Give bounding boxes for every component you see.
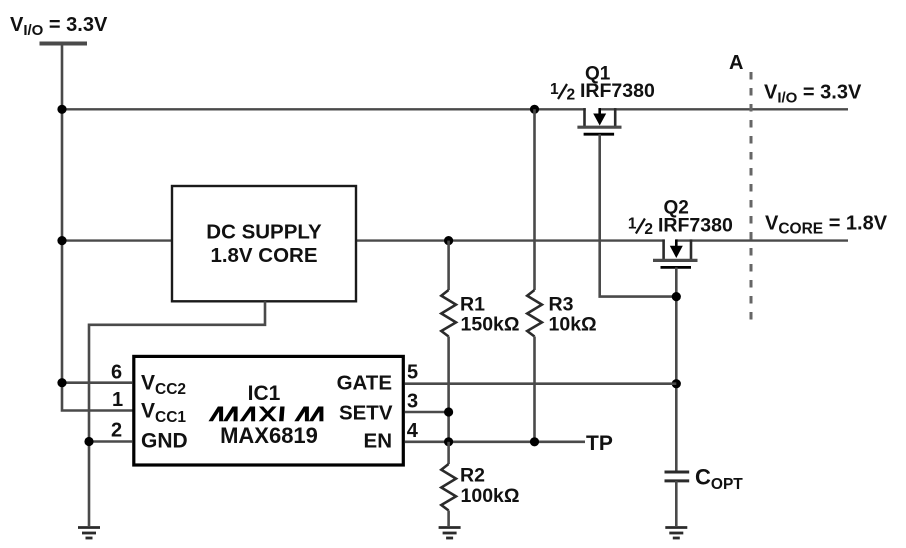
- node junction EN / R1-R2: [444, 437, 453, 446]
- svg-text:R3: R3: [549, 294, 574, 316]
- svg-text:SETV: SETV: [339, 402, 393, 425]
- svg-text:R1: R1: [460, 294, 485, 316]
- wire 1.8V core rail left of DC supply box: [62, 239, 172, 241]
- svg-text:MAX6819: MAX6819: [220, 423, 318, 448]
- node junction gate wires: [672, 292, 681, 301]
- wire SETV pin 3 line: [405, 411, 449, 414]
- node junction EN / R3: [530, 437, 539, 446]
- svg-text:IRF7380: IRF7380: [580, 80, 655, 102]
- svg-text:3: 3: [407, 391, 418, 413]
- wire GATE pin 5 line: [405, 382, 676, 385]
- label 1/2 IRF7380 for Q1: [550, 80, 655, 104]
- Q2 drain stub: [690, 239, 693, 259]
- node junction top rail / R3: [530, 105, 539, 114]
- Q1 channel bar: [577, 126, 621, 129]
- svg-text:100kΩ: 100kΩ: [461, 485, 520, 507]
- svg-text:2: 2: [644, 221, 653, 238]
- resistor R2: [441, 442, 456, 526]
- transistor Q2 (1/2 IRF7380): [653, 239, 698, 267]
- label 1/2 IRF7380 for Q2: [628, 215, 733, 239]
- svg-text:2: 2: [567, 87, 576, 104]
- node junction GND: [84, 437, 93, 446]
- wire vertical from VI/O bar down to VCC1 corner: [62, 44, 133, 411]
- cutline A dashed: [750, 72, 753, 327]
- svg-text:1: 1: [112, 389, 123, 411]
- svg-text:5: 5: [407, 362, 418, 384]
- node junction top rail / main vertical: [57, 105, 66, 114]
- DC supply box: [172, 186, 356, 301]
- node junction 1.8V rail / R1: [444, 236, 453, 245]
- Q1 drain stub: [614, 108, 617, 126]
- svg-text:A: A: [729, 52, 743, 74]
- svg-text:EN: EN: [364, 430, 392, 453]
- wire Q1 gate down and over to gate node: [600, 134, 677, 296]
- capacitor COPT: [665, 472, 690, 481]
- wire Q2 gate down to COPT: [675, 267, 678, 470]
- pin 6 wire VCC2: [62, 381, 132, 384]
- node junction VCC2: [57, 378, 66, 387]
- Q1 gate bar: [584, 133, 615, 136]
- Q2 substrate arrow: [675, 239, 678, 247]
- svg-text:1: 1: [550, 81, 559, 98]
- Q1 substrate arrow: [598, 108, 601, 115]
- Q2 gate bar: [661, 266, 692, 269]
- pin 2 wire GND: [89, 440, 132, 443]
- svg-text:6: 6: [111, 362, 122, 384]
- node junction gate line: [672, 379, 681, 388]
- wire top 3.3V rail right segment: [599, 108, 849, 110]
- svg-text:GND: GND: [141, 430, 188, 453]
- svg-text:150kΩ: 150kΩ: [461, 314, 520, 336]
- Q2 source stub: [662, 239, 665, 259]
- svg-text:4: 4: [407, 420, 419, 442]
- wire 1.8V core rail right of Q2: [676, 239, 848, 241]
- svg-text:1: 1: [628, 216, 637, 233]
- svg-text:2: 2: [111, 420, 122, 442]
- svg-text:IRF7380: IRF7380: [658, 215, 733, 237]
- wire 1.8V core rail from box to Q2: [356, 239, 665, 241]
- svg-text:TP: TP: [586, 432, 613, 455]
- svg-text:DC SUPPLY: DC SUPPLY: [206, 221, 322, 244]
- svg-text:IC1: IC1: [248, 382, 281, 405]
- power terminal bar VI/O: [40, 42, 88, 46]
- ground bottom-left: [78, 528, 100, 539]
- wire DC supply ground return: [89, 301, 265, 526]
- svg-text:10kΩ: 10kΩ: [549, 314, 597, 336]
- transistor Q1 (1/2 IRF7380): [577, 108, 621, 134]
- Q2 channel bar: [653, 259, 698, 262]
- node junction SETV / divider: [444, 407, 453, 416]
- ground below R2: [439, 528, 461, 539]
- MAXIM logo: [209, 407, 324, 422]
- wire COPT to ground: [675, 481, 678, 526]
- wire top 3.3V rail left segment: [62, 108, 586, 110]
- wire EN pin 4 line to TP: [405, 440, 585, 443]
- svg-text:R2: R2: [460, 465, 485, 487]
- resistor R1: [441, 241, 456, 443]
- svg-text:GATE: GATE: [337, 372, 392, 395]
- svg-text:1.8V CORE: 1.8V CORE: [210, 244, 317, 267]
- node junction 1.8V rail / main vertical: [57, 236, 66, 245]
- IC1 box: [134, 356, 404, 465]
- ground below COPT: [665, 528, 687, 539]
- resistor R3: [527, 109, 542, 443]
- Q1 source stub: [583, 108, 586, 126]
